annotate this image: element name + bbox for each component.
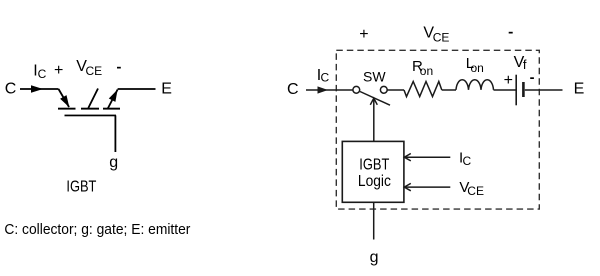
svg-text:+: + — [359, 26, 368, 43]
svg-text:f: f — [523, 57, 527, 72]
svg-text:C: C — [463, 154, 472, 168]
svg-text:+: + — [504, 72, 513, 89]
svg-text:IGBT: IGBT — [359, 156, 389, 173]
svg-text:C: C — [321, 71, 330, 85]
svg-text:C: C — [287, 81, 299, 98]
svg-text:g: g — [109, 154, 118, 171]
svg-text:C: C — [38, 67, 47, 81]
svg-text:CE: CE — [433, 31, 450, 45]
svg-text:C: C — [5, 81, 17, 98]
svg-text:Logic: Logic — [358, 173, 391, 190]
svg-text:on: on — [420, 64, 433, 78]
svg-text:CE: CE — [467, 184, 484, 198]
svg-text:+: + — [54, 62, 63, 79]
svg-text:E: E — [161, 81, 172, 98]
svg-text:E: E — [574, 81, 585, 98]
svg-text:CE: CE — [86, 64, 103, 78]
svg-text:IGBT: IGBT — [66, 179, 96, 196]
svg-text:g: g — [370, 249, 379, 266]
svg-text:C: collector; g: gate; E: emit: C: collector; g: gate; E: emitter — [4, 221, 190, 238]
svg-text:on: on — [471, 61, 484, 75]
svg-text:SW: SW — [363, 69, 386, 85]
